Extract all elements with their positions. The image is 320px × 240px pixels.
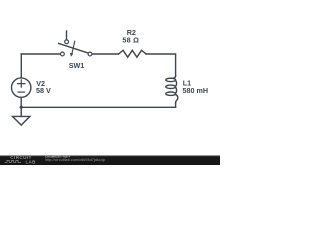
svg-text:580 mH: 580 mH (183, 86, 209, 95)
svg-text:58 V: 58 V (36, 86, 51, 95)
svg-text:SW1: SW1 (69, 61, 85, 70)
svg-text:LAB: LAB (26, 159, 37, 164)
svg-text:http://circuitlab.com/c6694d7j: http://circuitlab.com/c6694d7jdkc4p (45, 158, 105, 162)
svg-text:58 Ω: 58 Ω (122, 36, 139, 45)
